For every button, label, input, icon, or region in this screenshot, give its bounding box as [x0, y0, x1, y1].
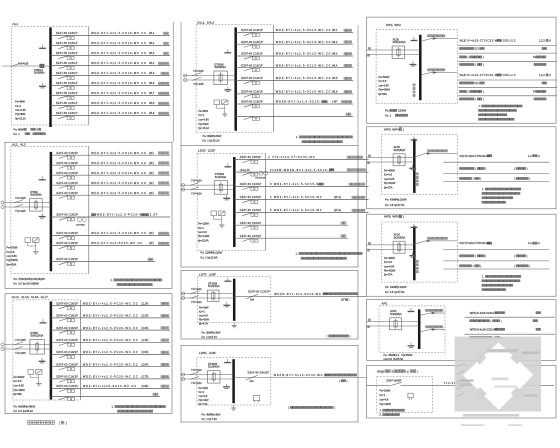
- svg-text:WDZ-BYJ-4x2.5-PC20-WC.CC: WDZ-BYJ-4x2.5-PC20-WC.CC: [83, 326, 138, 330]
- svg-text:DZ47-60 C16/2P: DZ47-60 C16/2P: [241, 100, 263, 104]
- circuit row WP5-1.2: [460, 254, 528, 258]
- svg-text:0.8: 0.8: [18, 282, 22, 286]
- outgoing breaker AL1 WL7: [51, 91, 171, 99]
- svg-text:YJV-4x25: YJV-4x25: [193, 70, 204, 73]
- footer WG: [380, 409, 405, 416]
- footer AP1: [384, 353, 413, 361]
- svg-text:(: (: [514, 254, 515, 258]
- circuit row WP1-1.1: [460, 39, 552, 43]
- ground 1AL: [222, 111, 227, 116]
- incoming meter labels AL1: [18, 62, 45, 74]
- svg-text:(2.4F): (2.4F): [142, 338, 149, 342]
- PE bar 1AL: [224, 87, 231, 92]
- svg-text:WL8: WL8: [149, 101, 155, 105]
- svg-text:(2F): (2F): [149, 241, 154, 245]
- svg-text:(2F): (2F): [149, 161, 154, 165]
- svg-text:Pjs=8kW: Pjs=8kW: [15, 113, 26, 116]
- incoming feeder WP3: [367, 146, 415, 166]
- svg-text:1.: 1.: [380, 409, 382, 412]
- svg-text:1.: 1.: [112, 405, 114, 409]
- svg-text:Pe=70kW: Pe=70kW: [7, 247, 19, 250]
- circuit row WP1-1.4: [460, 63, 547, 67]
- watermark text rows: [460, 349, 540, 397]
- svg-text:DZ47-60 C16/1P: DZ47-60 C16/1P: [241, 90, 263, 94]
- panel LD7F label: [199, 272, 216, 276]
- svg-text:Pe=40kW: Pe=40kW: [384, 170, 396, 173]
- svg-text:(: (: [468, 90, 469, 94]
- svg-text:Ijs:15.2A: Ijs:15.2A: [209, 139, 220, 143]
- svg-text:,: ,: [204, 21, 205, 25]
- svg-text:YJV-4x16: YJV-4x16: [191, 180, 202, 183]
- wire WP1-1 line2: [458, 52, 557, 54]
- svg-text:WDZ-BYJ-4x2.5-PC20-WC.CC: WDZ-BYJ-4x2.5-PC20-WC.CC: [83, 362, 138, 366]
- svg-text:cos=0.8: cos=0.8: [380, 399, 389, 402]
- ground LD5F: [231, 405, 236, 410]
- svg-text:DZ47-60 C16/1P: DZ47-60 C16/1P: [56, 101, 78, 105]
- svg-text:): ): [347, 380, 348, 383]
- surge arrester AL2: [25, 238, 39, 249]
- svg-text:YJV-4x25: YJV-4x25: [15, 210, 26, 213]
- svg-text:DZ47-60 C16/1P: DZ47-60 C16/1P: [56, 161, 78, 165]
- svg-text:1.: 1.: [111, 278, 113, 282]
- svg-text:WDZ-BYJ-2x2.5-PC16-WC: WDZ-BYJ-2x2.5-PC16-WC: [97, 213, 146, 217]
- feeder group WP1-1: [420, 35, 457, 42]
- busbar AL1: [49, 28, 52, 128]
- svg-text:): ): [485, 254, 486, 258]
- svg-text:cos:0.8: cos:0.8: [384, 357, 393, 361]
- PE bar WP3: [409, 165, 416, 170]
- svg-text:(1F: (1F: [341, 299, 345, 302]
- circuit row AP1-1.1: [470, 311, 541, 315]
- svg-text:3x20(80)A: 3x20(80)A: [390, 313, 402, 316]
- svg-text:3x10(40)A: 3x10(40)A: [215, 176, 227, 179]
- svg-text:LD2F: LD2F: [208, 148, 216, 152]
- panel AL1 enclosure: [11, 27, 89, 126]
- svg-text:Kx:1: Kx:1: [394, 353, 400, 357]
- svg-text:WDZ-BYJ-3x2.5-PC16-WC.CC: WDZ-BYJ-3x2.5-PC16-WC.CC: [91, 91, 147, 95]
- incoming feeder WP5: [367, 234, 415, 254]
- wire WP5-1 line3: [443, 268, 549, 270]
- svg-text:Ijs=15.2A: Ijs=15.2A: [198, 127, 209, 130]
- svg-text:WDZ-BYJ-4x25-SC40-WC.CC: WDZ-BYJ-4x25-SC40-WC.CC: [83, 384, 137, 388]
- svg-text:Kx:: Kx:: [385, 203, 389, 207]
- svg-text:): ): [485, 167, 486, 171]
- svg-text:Pjs=48kW: Pjs=48kW: [14, 389, 26, 392]
- outgoing circuit LD7F: [234, 289, 367, 301]
- svg-text:WL2: WL2: [332, 40, 338, 44]
- svg-text:(2.1F): (2.1F): [142, 301, 149, 305]
- panel 1AL label: [197, 21, 214, 25]
- svg-text:Pjs:32kW: Pjs:32kW: [396, 198, 408, 202]
- svg-text:YJV-4x10: YJV-4x10: [191, 382, 202, 385]
- parameters AL1: [15, 101, 26, 121]
- N bar 1AL: [224, 49, 231, 53]
- svg-text:WL5: WL5: [332, 76, 338, 80]
- parameters WG: [380, 390, 392, 407]
- svg-text:DZ47-60 C16/1P: DZ47-60 C16/1P: [56, 213, 78, 217]
- svg-text:YJV-4x25-CT/SC32-WC: YJV-4x25-CT/SC32-WC: [464, 39, 500, 43]
- device symbol WG: [408, 393, 413, 400]
- svg-text:WL7: WL7: [149, 91, 155, 95]
- svg-text:0.8: 0.8: [390, 290, 394, 294]
- svg-text:Pe:: Pe:: [385, 285, 389, 289]
- svg-text:(: (: [514, 167, 515, 171]
- svg-text:DZ47-60 C16/1P: DZ47-60 C16/1P: [56, 241, 78, 245]
- N bar LD5F: [224, 359, 231, 363]
- ground AL2: [33, 249, 38, 254]
- svg-text:LD8F: LD8F: [209, 272, 217, 276]
- wire WP5-1 line2: [443, 260, 549, 262]
- svg-text:): ): [480, 177, 481, 181]
- svg-text:LD6F: LD6F: [209, 351, 217, 355]
- svg-text:DZ47-60 C16/1P: DZ47-60 C16/1P: [56, 314, 78, 318]
- parameters LD1F: [198, 223, 210, 243]
- svg-text:Pe:: Pe:: [14, 405, 18, 409]
- outgoing breaker AL1 WL3: [51, 51, 171, 59]
- incoming feeder AL2: [1, 191, 51, 213]
- PE bar AL2: [39, 213, 46, 218]
- svg-text:DZ47-60 C16/1P: DZ47-60 C16/1P: [56, 111, 78, 115]
- N bar AL2: [39, 176, 46, 180]
- svg-text:Pjs:45kW: Pjs:45kW: [401, 353, 413, 357]
- ground LD7F: [232, 323, 237, 328]
- note WP1: [479, 105, 523, 120]
- svg-text:imA: imA: [250, 380, 254, 383]
- circuit row AP1-1.2: [470, 319, 538, 323]
- svg-text:,: ,: [390, 127, 391, 131]
- svg-text:WDZ-BYJ-3x2.5-SC15-WC.CC: WDZ-BYJ-3x2.5-SC15-WC.CC: [276, 63, 332, 67]
- svg-text:(2.2F): (2.2F): [142, 314, 149, 318]
- svg-text:WDZ-BYJ-3x2.5-SC15-WC.CC: WDZ-BYJ-3x2.5-SC15-WC.CC: [276, 40, 332, 44]
- panel AP1 enclosure: [379, 306, 445, 353]
- wire WP3-1 line2: [443, 173, 549, 175]
- svg-text:DZ47-60 C20/2P: DZ47-60 C20/2P: [248, 289, 270, 293]
- svg-text:WL1: WL1: [149, 31, 155, 35]
- svg-text:Kx=1: Kx=1: [15, 105, 21, 108]
- svg-text:WL5: WL5: [149, 71, 155, 75]
- panel AL2 label: [12, 142, 26, 146]
- svg-text:Ijs=86A: Ijs=86A: [378, 93, 387, 96]
- svg-text:1AL2: 1AL2: [207, 21, 215, 25]
- outgoing breaker AL1 WL2: [51, 41, 171, 49]
- svg-text:Kx=1: Kx=1: [199, 391, 205, 394]
- svg-text:Pjs:4kW: Pjs:4kW: [211, 413, 221, 417]
- svg-text:WDZ-BYJ-3x2.5-PC16-WC.CC: WDZ-BYJ-3x2.5-PC16-WC.CC: [91, 151, 147, 155]
- svg-text:): ): [403, 127, 404, 131]
- svg-text:WDZ-BYJ-3x2.5-PC16-WC.CC: WDZ-BYJ-3x2.5-PC16-WC.CC: [91, 31, 147, 35]
- svg-text:Kx:: Kx:: [14, 409, 18, 413]
- svg-text:WL9: WL9: [149, 111, 155, 115]
- wire WP1-1 line1: [458, 44, 557, 46]
- svg-text:,: ,: [19, 295, 20, 299]
- panel WP1 label: [386, 23, 401, 27]
- svg-text:WDZ-BYJ-4x2.5-PC20-WC.CC: WDZ-BYJ-4x2.5-PC20-WC.CC: [83, 314, 138, 318]
- svg-text:Kx=0.8: Kx=0.8: [384, 261, 392, 264]
- svg-text:Kx:: Kx:: [202, 335, 206, 339]
- svg-text:A: A: [538, 154, 540, 158]
- svg-text:DZ47-60 C16/1P: DZ47-60 C16/1P: [56, 231, 78, 235]
- panel LD1F frame: [181, 146, 358, 268]
- vertical label R3 busbar: [416, 260, 418, 273]
- footer AL2: [14, 277, 46, 286]
- svg-text:DZ47-60 C16/1P: DZ47-60 C16/1P: [56, 51, 78, 55]
- panel WP1 enclosure: [376, 29, 457, 103]
- svg-text:cos=0.8: cos=0.8: [198, 231, 207, 234]
- svg-text:Kx=0.8: Kx=0.8: [7, 251, 15, 254]
- incoming feeder LD5F: [181, 363, 234, 385]
- svg-text:WL4: WL4: [332, 63, 338, 67]
- outgoing breaker AL2 W5: [51, 191, 170, 199]
- svg-text:JXD1-2.5: JXD1-2.5: [503, 73, 516, 77]
- svg-text:Kx=1: Kx=1: [380, 394, 386, 397]
- note LD7F: [327, 334, 351, 338]
- svg-text:Pjs=3kW: Pjs=3kW: [199, 319, 210, 322]
- svg-text:(2.7F): (2.7F): [142, 375, 149, 379]
- outgoing circuit LD5F: [234, 371, 367, 383]
- svg-text:Pe:: Pe:: [202, 413, 206, 417]
- svg-text:Pe=4kW: Pe=4kW: [199, 387, 209, 390]
- svg-text:(2F): (2F): [149, 171, 154, 175]
- circuit row WP1-2.3: [460, 90, 546, 94]
- svg-text:Pe:: Pe:: [385, 109, 389, 113]
- outgoing breaker AL1 WL5: [51, 71, 171, 79]
- svg-text:2.5F: 2.5F: [150, 213, 159, 217]
- svg-text:Pjs=48kW: Pjs=48kW: [379, 89, 391, 92]
- footer AL1: [14, 127, 46, 136]
- svg-text:,: ,: [38, 295, 39, 299]
- N bar AL1: [39, 45, 46, 49]
- svg-text:(: (: [288, 406, 289, 410]
- parameters WP3: [384, 170, 396, 190]
- svg-text:): ): [527, 167, 528, 171]
- outgoing breaker 1AL W8: [236, 113, 353, 120]
- svg-text:Pjs:56(48)kW: Pjs:56(48)kW: [29, 277, 45, 281]
- wire WP1-2 line3: [458, 95, 557, 97]
- panel LD5F frame: [181, 346, 358, 423]
- svg-text:Pjs=4kW: Pjs=4kW: [199, 399, 210, 402]
- svg-text:,: ,: [206, 351, 207, 355]
- svg-text:1-8F: 1-8F: [332, 100, 338, 104]
- busbar 1AL: [234, 27, 237, 130]
- N bar AL14: [40, 319, 47, 323]
- svg-text:Ijs=15.2A: Ijs=15.2A: [15, 118, 26, 121]
- svg-text:Ijs=100A: Ijs=100A: [6, 264, 16, 267]
- PE bar LD7F: [223, 302, 230, 307]
- svg-text:WDZ-BYJ-4x2.5-PC20-WC.CC: WDZ-BYJ-4x2.5-PC20-WC.CC: [83, 375, 138, 379]
- svg-text:DZ47-60 C16/1P: DZ47-60 C16/1P: [56, 362, 78, 366]
- svg-text:DZ47-60 C16/1P: DZ47-60 C16/1P: [56, 375, 78, 379]
- svg-text:AL3: AL3: [20, 142, 26, 146]
- watermark hatch marks: [457, 363, 465, 397]
- svg-text:Kx:: Kx:: [203, 139, 207, 143]
- svg-text:)(: )(: [407, 369, 409, 373]
- outgoing breaker 1AL W5: [236, 76, 353, 84]
- panel AP1 label: [382, 301, 388, 305]
- svg-text:(: (: [473, 177, 474, 181]
- svg-text:Kx:: Kx:: [14, 282, 18, 286]
- wire WP1-2 line1: [458, 79, 557, 81]
- note WP5: [482, 275, 521, 290]
- wire WP1-2 line2: [458, 87, 557, 89]
- svg-text:Ijs=57A: Ijs=57A: [384, 186, 393, 189]
- svg-text:WDZ-BYJ-3x2.5-PC16-WC.CC: WDZ-BYJ-3x2.5-PC16-WC.CC: [91, 231, 147, 235]
- svg-text:WDZ-BYJ-3x2.5-PC16-WC.CC: WDZ-BYJ-3x2.5-PC16-WC.CC: [91, 81, 147, 85]
- svg-text:Ijs:7.6A: Ijs:7.6A: [208, 417, 217, 421]
- svg-text:(2.8F): (2.8F): [142, 384, 149, 388]
- svg-text:(2F): (2F): [149, 181, 154, 185]
- svg-text:YJV-4x25: YJV-4x25: [193, 83, 204, 86]
- circuit row WP1-1.3: [460, 55, 546, 59]
- svg-text:DZ47-60 C16/1P: DZ47-60 C16/1P: [240, 234, 262, 238]
- svg-text:(: (: [514, 177, 515, 181]
- panel WP5 frame: [367, 214, 557, 296]
- outgoing breaker AL14 W7: [51, 375, 170, 383]
- svg-text:(: (: [475, 254, 476, 258]
- svg-text:): ): [350, 334, 351, 338]
- busbar WP5: [413, 226, 416, 280]
- svg-text:WDZN-BYJ-5x10-SC32-WC.CC: WDZN-BYJ-5x10-SC32-WC.CC: [274, 373, 331, 377]
- svg-text:): ): [483, 90, 484, 94]
- wire AP1-2 line1: [465, 333, 555, 335]
- incoming feeder LD7F: [181, 282, 234, 303]
- svg-text:DZ47-60 C16/1P: DZ47-60 C16/1P: [240, 182, 262, 186]
- svg-text:Pe=8kW: Pe=8kW: [199, 110, 209, 113]
- svg-text:WDZ-BYJ-3x2.5-PC16-WC.CC: WDZ-BYJ-3x2.5-PC16-WC.CC: [91, 111, 147, 115]
- svg-text:Ijs=5.7A: Ijs=5.7A: [199, 323, 209, 326]
- cable label WG: [444, 381, 490, 385]
- svg-text:(: (: [475, 97, 476, 101]
- svg-text:1.: 1.: [482, 188, 484, 191]
- ground AL14: [36, 381, 41, 386]
- svg-text:(2F): (2F): [149, 151, 154, 155]
- svg-text:Ijs:57.8A: Ijs:57.8A: [394, 203, 405, 207]
- outgoing breaker AL2 W4: [51, 181, 170, 189]
- outgoing breaker LD1F W6: [234, 221, 348, 229]
- svg-text:Pjs=10kW: Pjs=10kW: [380, 403, 392, 406]
- wire AP1-1 line1: [465, 316, 555, 318]
- svg-text:WDZ-BYJ-4x2.5-PC20-WC.CC: WDZ-BYJ-4x2.5-PC20-WC.CC: [83, 301, 138, 305]
- watermark url text below: [461, 414, 522, 426]
- svg-text:DZ47-60 C16/1P: DZ47-60 C16/1P: [56, 71, 78, 75]
- N bar WP5: [411, 224, 418, 228]
- footer WP3: [385, 198, 407, 207]
- svg-text:DZ47-60 D40/2P: DZ47-60 D40/2P: [248, 371, 270, 375]
- incoming feeder AL1: [2, 63, 51, 67]
- svg-text:WL3: WL3: [149, 51, 155, 55]
- svg-text:WL2: WL2: [149, 41, 155, 45]
- surge arrester LD1F: [211, 211, 225, 222]
- svg-text:(2F): (2F): [149, 191, 154, 195]
- svg-text:(C): (C): [475, 47, 479, 51]
- svg-text:): ): [403, 215, 404, 219]
- circuit row WP3-1.2: [460, 167, 528, 171]
- outgoing breaker AL2 W9: [51, 257, 155, 265]
- svg-text:AL1: AL1: [13, 22, 19, 26]
- svg-text:(2.3F): (2.3F): [142, 326, 149, 330]
- feeder group WP3-1: [414, 150, 457, 157]
- circuit row WP1-2.4: [460, 97, 547, 101]
- svg-text:): ): [483, 97, 484, 101]
- outgoing breaker AL2 W7: [51, 231, 170, 239]
- svg-text:): ): [417, 369, 418, 373]
- svg-text:Ijs:100.6(86)A: Ijs:100.6(86)A: [23, 282, 40, 286]
- svg-text:Pe:: Pe:: [14, 277, 18, 281]
- parameters LD7F: [199, 307, 210, 326]
- circuit row AP1-2.1: [470, 327, 541, 331]
- svg-text:cos=0.8: cos=0.8: [199, 395, 208, 398]
- busbar AL2: [50, 152, 53, 271]
- svg-text:(2.6F): (2.6F): [142, 362, 149, 366]
- svg-text:WDZ-BYJ-3x2.5-SC15-WC.CC: WDZ-BYJ-3x2.5-SC15-WC.CC: [276, 52, 332, 56]
- busbar AL14: [50, 302, 53, 400]
- N bar AP1: [408, 308, 415, 312]
- incoming feeder LD1F: [181, 173, 234, 195]
- svg-text:YJV-4x16-SC32-WC: YJV-4x16-SC32-WC: [474, 327, 497, 331]
- column divider 1AL: [272, 25, 274, 132]
- outgoing breaker AL14 W3: [51, 326, 170, 334]
- svg-text:): ): [483, 63, 484, 67]
- svg-text:8kW/: 8kW/: [18, 127, 24, 131]
- svg-text:Pjs=32kW: Pjs=32kW: [384, 182, 396, 185]
- svg-text:1,2,3: 1,2,3: [539, 73, 545, 77]
- outgoing breaker 1AL W3: [236, 52, 353, 60]
- svg-text:Pe:: Pe:: [203, 134, 207, 138]
- svg-text:DZ47-60 C16/1P: DZ47-60 C16/1P: [56, 191, 78, 195]
- outgoing breaker 1AL W1: [236, 28, 353, 36]
- svg-text:WDZ-BYJ-3x2.5-SC15-WC.CC: WDZ-BYJ-3x2.5-SC15-WC.CC: [276, 76, 332, 80]
- wire WP3-1 line1: [443, 161, 549, 163]
- svg-text:WDZN-BYJ-3x2.5-SC15-WC: WDZN-BYJ-3x2.5-SC15-WC: [276, 100, 327, 104]
- svg-text:,: ,: [28, 295, 29, 299]
- svg-text:cos=0.85: cos=0.85: [379, 84, 390, 87]
- svg-text:(: (: [475, 167, 476, 171]
- svg-text:Kx=1: Kx=1: [199, 114, 205, 117]
- svg-text:): ): [529, 177, 530, 181]
- note WP3: [482, 188, 521, 203]
- svg-text:DZ47-60 C16/1P: DZ47-60 C16/1P: [241, 52, 263, 56]
- svg-text:): ): [483, 55, 484, 59]
- svg-text:YJV-4x25-SC40-FC: YJV-4x25-SC40-FC: [474, 311, 497, 315]
- svg-text:): ): [480, 264, 481, 268]
- svg-text:Ijs=57A: Ijs=57A: [384, 274, 393, 277]
- svg-text:Pe:: Pe:: [385, 198, 389, 202]
- PE bar AL14: [39, 358, 46, 363]
- svg-text:DZ47-60 C16/1P: DZ47-60 C16/1P: [56, 91, 78, 95]
- svg-text:(C): (C): [475, 81, 479, 85]
- panel LD7F frame: [181, 271, 358, 340]
- svg-text:Kx:: Kx:: [385, 290, 389, 294]
- svg-text:DZ47-60 C16/1P: DZ47-60 C16/1P: [56, 81, 78, 85]
- svg-text:Pjs=56kW: Pjs=56kW: [7, 259, 19, 262]
- svg-text:WDZ-BYJ-3x2.5-PC16-WC.CC: WDZ-BYJ-3x2.5-PC16-WC.CC: [91, 51, 147, 55]
- svg-text:cos=0.8: cos=0.8: [199, 315, 208, 318]
- svg-text:Pjs:3kW: Pjs:3kW: [211, 331, 221, 335]
- svg-text:YJV-4x25: YJV-4x25: [18, 62, 29, 65]
- svg-text:DZ47-60 C16/1P: DZ47-60 C16/1P: [56, 181, 78, 185]
- footer LD7F: [202, 331, 221, 340]
- svg-text:(: (: [468, 55, 469, 59]
- svg-text:YJV-4x10: YJV-4x10: [191, 288, 202, 291]
- svg-text:YJV-4x16-CT/SC40-WC: YJV-4x16-CT/SC40-WC: [464, 73, 500, 77]
- svg-text:,: ,: [18, 142, 19, 146]
- wire WP1-1 line3: [458, 60, 557, 62]
- svg-text:DZ47-60 C16/1P: DZ47-60 C16/1P: [56, 301, 78, 305]
- svg-text:WDZ-BYJ-4x2.5-PC20-WC.CC: WDZ-BYJ-4x2.5-PC20-WC.CC: [83, 350, 138, 354]
- circuit row WP5-1.3: [460, 264, 531, 268]
- svg-text:DZ47-60 C16/1P: DZ47-60 C16/1P: [56, 350, 78, 354]
- svg-text:cos=0.85: cos=0.85: [384, 265, 395, 268]
- parameters WP1: [378, 76, 390, 96]
